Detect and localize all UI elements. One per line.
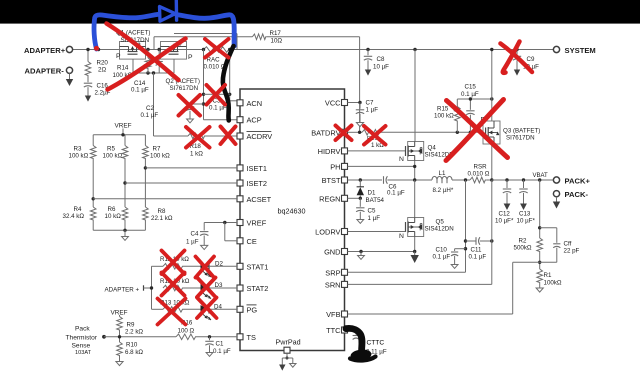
pin TTC xyxy=(342,327,348,333)
wire Q1 Q2 gates xyxy=(132,59,134,73)
svg-text:C12: C12 xyxy=(499,211,511,218)
transistor Q1 (ACFET) xyxy=(120,42,146,60)
resistor R2 xyxy=(537,238,543,253)
svg-text:0.1 µF: 0.1 µF xyxy=(131,87,149,94)
svg-text:R8: R8 xyxy=(158,208,166,215)
svg-text:PACK+: PACK+ xyxy=(565,176,591,185)
svg-text:BAT54: BAT54 xyxy=(366,197,385,204)
svg-text:103AT: 103AT xyxy=(75,350,92,356)
resistor R1 xyxy=(537,269,543,284)
pin GND xyxy=(342,249,348,255)
wire CE xyxy=(224,223,226,241)
capacitor CTTC xyxy=(348,329,357,331)
svg-text:C7: C7 xyxy=(366,100,374,107)
red X over R12 xyxy=(162,273,185,296)
LED D2 xyxy=(184,265,201,267)
red X over R18 xyxy=(186,127,210,148)
pin PG xyxy=(237,306,243,312)
svg-text:R7: R7 xyxy=(153,146,161,153)
pin CE xyxy=(237,238,243,244)
svg-text:PG: PG xyxy=(247,305,258,314)
pin ISET2 xyxy=(237,180,243,186)
capacitor C9 xyxy=(515,48,518,51)
resistor R5 xyxy=(124,135,126,146)
sense resistor RAC xyxy=(204,47,230,53)
svg-text:Q5: Q5 xyxy=(436,218,445,225)
pin HIDRV xyxy=(342,148,348,154)
wire R17 row xyxy=(153,37,155,50)
pin STAT2 xyxy=(237,285,243,291)
svg-text:R10: R10 xyxy=(126,342,138,349)
svg-text:1 µF: 1 µF xyxy=(368,215,381,222)
svg-text:SI7617DN: SI7617DN xyxy=(170,85,199,92)
terminal ADAPTER- xyxy=(66,67,72,73)
svg-text:P: P xyxy=(188,54,193,61)
capacitor Cff xyxy=(540,227,557,229)
wire R17 to BATDRV xyxy=(359,37,361,133)
pin ACN xyxy=(237,100,243,106)
svg-text:Q4: Q4 xyxy=(428,144,437,151)
svg-text:C11: C11 xyxy=(471,246,482,253)
capacitor C4 xyxy=(203,223,205,231)
pin PwrPad xyxy=(284,347,290,353)
red X over D2 xyxy=(196,257,215,278)
svg-text:RSR: RSR xyxy=(474,163,488,170)
black marker TTC annotation xyxy=(346,328,362,349)
svg-text:R14: R14 xyxy=(117,65,129,72)
svg-text:32.4 kΩ: 32.4 kΩ xyxy=(63,213,85,220)
wire ACSET row xyxy=(92,160,94,208)
resistor R11 xyxy=(152,265,164,267)
pin VREF xyxy=(237,220,243,226)
svg-text:CE: CE xyxy=(247,237,257,246)
svg-text:TTC: TTC xyxy=(326,326,341,335)
wire VFB row xyxy=(348,313,513,315)
svg-text:R9: R9 xyxy=(127,322,135,329)
capacitor C7 xyxy=(348,102,361,104)
svg-text:R5: R5 xyxy=(107,146,115,153)
svg-text:N: N xyxy=(399,156,404,163)
svg-text:REGN: REGN xyxy=(319,194,340,203)
pin VFB xyxy=(342,311,348,317)
wire VBAT rail xyxy=(492,179,554,181)
svg-text:D2: D2 xyxy=(215,260,223,267)
resistor R14 xyxy=(147,50,149,59)
red dot at adapter junction xyxy=(94,46,99,51)
svg-text:0.1 µF: 0.1 µF xyxy=(213,348,231,355)
svg-text:C4: C4 xyxy=(191,231,199,238)
svg-text:Pack: Pack xyxy=(75,326,90,333)
svg-text:Q2 (ACFET): Q2 (ACFET) xyxy=(166,78,200,85)
svg-text:BATDRV: BATDRV xyxy=(311,128,340,137)
transistor Q4 xyxy=(413,48,416,51)
resistor R19 xyxy=(362,130,381,136)
pin VCC xyxy=(342,100,348,106)
capacitor C2 xyxy=(190,103,204,105)
resistor R7 xyxy=(144,135,146,146)
node adapter junction xyxy=(97,48,100,51)
pin SRP xyxy=(342,269,348,275)
red X over BATDRV pin xyxy=(336,126,352,141)
svg-text:VBAT: VBAT xyxy=(533,173,549,179)
svg-text:L1: L1 xyxy=(439,170,446,177)
svg-text:100 kΩ: 100 kΩ xyxy=(150,153,170,160)
capacitor C8 xyxy=(366,48,369,51)
red X over R19 xyxy=(364,126,386,145)
svg-text:D1: D1 xyxy=(368,189,376,196)
black marker wire annotation xyxy=(223,46,234,121)
LED D4 xyxy=(184,308,201,310)
wire REGN row xyxy=(348,197,361,199)
pin TS xyxy=(237,334,243,340)
svg-text:VREF: VREF xyxy=(115,123,132,130)
wire gate to ACDRV row xyxy=(154,135,189,137)
wire BTST phase row xyxy=(348,179,383,181)
wire RAC right sense xyxy=(229,50,231,101)
resistor R12 xyxy=(163,285,184,291)
transistor Q5 xyxy=(414,180,416,218)
svg-text:ACP: ACP xyxy=(247,116,262,125)
svg-text:0.1 µF: 0.1 µF xyxy=(461,91,479,98)
svg-text:C1: C1 xyxy=(216,341,224,348)
svg-text:ACSET: ACSET xyxy=(247,195,272,204)
svg-text:P: P xyxy=(116,53,121,60)
svg-text:R6: R6 xyxy=(108,206,116,213)
svg-text:D4: D4 xyxy=(214,303,222,310)
inductor L1 xyxy=(432,176,452,180)
svg-text:R17: R17 xyxy=(270,30,282,37)
red X over ACDRV wire xyxy=(221,127,236,145)
resistor R9 xyxy=(117,317,123,332)
pin ACP xyxy=(237,117,243,123)
capacitor C11 xyxy=(466,240,477,242)
svg-text:1 µF: 1 µF xyxy=(366,107,379,114)
svg-text:HIDRV: HIDRV xyxy=(318,147,341,156)
svg-text:6.8 kΩ: 6.8 kΩ xyxy=(125,349,143,356)
svg-text:R2: R2 xyxy=(519,237,527,244)
resistor R4 xyxy=(90,207,96,221)
diode D1 BAT54 xyxy=(359,178,362,181)
sense resistor RSR xyxy=(470,177,486,183)
svg-text:PwrPad: PwrPad xyxy=(276,338,301,347)
ground PwrPad xyxy=(286,353,288,358)
svg-text:ISET1: ISET1 xyxy=(247,164,268,173)
resistor R16 xyxy=(176,334,197,340)
red X over C3 xyxy=(207,85,226,105)
svg-text:N: N xyxy=(399,233,404,240)
svg-text:Sense: Sense xyxy=(72,342,91,349)
svg-text:10 kΩ: 10 kΩ xyxy=(105,213,122,220)
svg-text:TS: TS xyxy=(247,333,257,342)
pin BATDRV xyxy=(342,129,348,135)
capacitor C16 xyxy=(87,77,89,83)
capacitor C3 xyxy=(204,93,215,95)
svg-text:VREF: VREF xyxy=(247,219,267,228)
svg-text:ISET2: ISET2 xyxy=(247,179,268,188)
svg-text:0.1 µF: 0.1 µF xyxy=(469,253,487,260)
svg-text:1 µF: 1 µF xyxy=(186,239,199,246)
red X over Q3 R15 C15 xyxy=(447,101,508,158)
resistor R18 xyxy=(188,133,206,139)
pin PH xyxy=(342,163,348,169)
pin ACSET xyxy=(237,196,243,202)
resistor R6 xyxy=(122,207,128,221)
capacitor C1 xyxy=(208,335,211,338)
svg-text:R15: R15 xyxy=(437,105,449,112)
wire PH row xyxy=(348,165,415,167)
svg-text:GND: GND xyxy=(324,248,340,257)
black header bar xyxy=(0,0,640,24)
wire adapter+ rail xyxy=(73,49,204,51)
resistor R17 xyxy=(252,34,266,40)
svg-text:0.1 µF: 0.1 µF xyxy=(141,112,159,119)
wire VREF pin row xyxy=(204,222,237,224)
resistor R3 xyxy=(92,135,94,146)
pin REGN xyxy=(342,195,348,201)
resistor R13 xyxy=(152,308,164,310)
resistor R15 xyxy=(456,99,458,107)
svg-text:C9: C9 xyxy=(527,56,535,63)
svg-text:100 Ω: 100 Ω xyxy=(178,327,195,334)
svg-text:CTTC: CTTC xyxy=(367,339,385,346)
svg-text:SI7617DN: SI7617DN xyxy=(506,134,535,141)
svg-text:C10: C10 xyxy=(436,246,448,253)
capacitor C12 xyxy=(505,178,508,181)
svg-text:C15: C15 xyxy=(465,84,477,91)
svg-text:ACDRV: ACDRV xyxy=(247,132,273,141)
wire to ACP xyxy=(204,119,238,121)
pin SRN xyxy=(342,281,348,287)
svg-text:2Ω: 2Ω xyxy=(98,67,106,74)
svg-text:Q3 (BATFET): Q3 (BATFET) xyxy=(503,127,540,134)
capacitor C15 xyxy=(469,99,471,110)
capacitor C13 xyxy=(522,178,525,181)
wire LODRV row xyxy=(348,231,406,233)
wire STAT bracket xyxy=(151,266,153,309)
svg-text:100 kΩ: 100 kΩ xyxy=(103,153,123,160)
red X over Q1 Q2 xyxy=(107,24,179,81)
wire VREF row xyxy=(93,134,145,136)
svg-text:C5: C5 xyxy=(368,207,376,214)
svg-text:100kΩ: 100kΩ xyxy=(544,279,562,286)
svg-text:0.1 µF: 0.1 µF xyxy=(433,253,451,260)
wire ISET1 row xyxy=(144,160,146,208)
pin ISET1 xyxy=(237,165,243,171)
svg-text:ADAPTER-: ADAPTER- xyxy=(25,67,65,76)
svg-text:D3: D3 xyxy=(215,282,223,289)
svg-text:SYSTEM: SYSTEM xyxy=(565,46,596,55)
blue diode annotation xyxy=(160,7,176,22)
red X over R13 xyxy=(158,299,186,325)
svg-text:0.1 µF: 0.1 µF xyxy=(387,189,405,196)
svg-text:8.2 µH*: 8.2 µH* xyxy=(433,187,454,194)
svg-text:R4: R4 xyxy=(74,206,82,213)
svg-text:C8: C8 xyxy=(377,56,385,63)
svg-text:STAT2: STAT2 xyxy=(247,284,269,293)
transistor Q3 (BATFET) xyxy=(491,50,493,122)
svg-text:ADAPTER+: ADAPTER+ xyxy=(24,46,66,55)
wire HIDRV row xyxy=(348,150,406,152)
wire SRN row xyxy=(348,283,492,285)
svg-text:22.1 kΩ: 22.1 kΩ xyxy=(151,215,173,222)
svg-text:R1: R1 xyxy=(544,272,552,279)
svg-text:LODRV: LODRV xyxy=(315,228,340,237)
svg-text:VCC: VCC xyxy=(325,99,341,108)
pin STAT1 xyxy=(237,263,243,269)
svg-text:2.2 kΩ: 2.2 kΩ xyxy=(125,329,143,336)
capacitor C10 xyxy=(455,248,466,250)
svg-text:R20: R20 xyxy=(97,60,109,67)
svg-text:500kΩ: 500kΩ xyxy=(514,245,532,252)
svg-text:10 µF*: 10 µF* xyxy=(495,218,514,225)
svg-text:100 kΩ: 100 kΩ xyxy=(69,153,89,160)
wire BATDRV row xyxy=(348,131,363,133)
wire GND row xyxy=(348,251,415,253)
svg-text:10 µF: 10 µF xyxy=(373,64,389,71)
svg-text:ACN: ACN xyxy=(247,99,263,108)
capacitor C5 xyxy=(359,198,361,207)
svg-text:PACK-: PACK- xyxy=(565,190,589,199)
wire to ACN xyxy=(230,100,237,102)
red X over C2 xyxy=(179,95,201,116)
svg-text:100 kΩ: 100 kΩ xyxy=(434,112,454,119)
svg-text:SIS412DN: SIS412DN xyxy=(425,225,454,232)
wire R15 C15 top xyxy=(457,98,492,100)
svg-text:Cff: Cff xyxy=(564,240,572,247)
svg-text:SRN: SRN xyxy=(325,280,341,289)
pin BTST xyxy=(342,177,348,183)
wire ISET2 row xyxy=(124,160,126,208)
svg-text:1 kΩ: 1 kΩ xyxy=(190,150,203,157)
resistor R8 xyxy=(143,207,149,221)
resistor R20 xyxy=(87,50,89,62)
svg-text:BTST: BTST xyxy=(322,176,341,185)
terminal PACK- xyxy=(553,191,559,197)
capacitor C6 xyxy=(383,176,385,184)
svg-text:STAT1: STAT1 xyxy=(247,262,269,271)
svg-text:PH: PH xyxy=(330,162,340,171)
red X over D3 xyxy=(197,278,216,298)
wire R2 column xyxy=(538,178,541,181)
wire RAC left sense xyxy=(203,50,205,120)
terminal SYSTEM xyxy=(553,46,559,52)
red X over RAC xyxy=(205,39,229,58)
svg-text:10Ω: 10Ω xyxy=(271,38,283,45)
wire gates to R18 xyxy=(153,73,155,136)
resistor R10 xyxy=(117,342,123,357)
red X over C9 xyxy=(501,44,533,73)
svg-text:C2: C2 xyxy=(146,105,154,112)
svg-text:22 pF: 22 pF xyxy=(564,247,580,254)
svg-text:VFB: VFB xyxy=(326,310,340,319)
terminal ADAPTER+ xyxy=(66,46,72,52)
red X over R11 xyxy=(162,251,185,275)
svg-text:0.010 Ω: 0.010 Ω xyxy=(468,171,490,178)
svg-text:ADAPTER +: ADAPTER + xyxy=(105,286,140,293)
svg-text:R3: R3 xyxy=(74,146,82,153)
svg-text:10 µF*: 10 µF* xyxy=(517,218,536,225)
wire TS row xyxy=(102,335,106,339)
pin LODRV xyxy=(342,229,348,235)
svg-text:Thermistor: Thermistor xyxy=(66,335,98,342)
capacitor C14 xyxy=(158,50,160,61)
wire loop upper xyxy=(174,33,237,35)
red X over D4 xyxy=(197,298,217,319)
LED D3 xyxy=(184,287,201,289)
blue bypass wire annotation xyxy=(94,14,158,49)
svg-text:SRP: SRP xyxy=(325,268,340,277)
transistor Q2 (ACFET) xyxy=(161,42,187,60)
ground divider xyxy=(92,221,94,230)
pin ACDRV xyxy=(237,133,243,139)
svg-text:C13: C13 xyxy=(519,211,531,218)
terminal PACK+ xyxy=(553,177,559,183)
svg-text:bq24630: bq24630 xyxy=(278,207,306,216)
IC U1 bq24630 xyxy=(240,89,345,351)
wire SRP row xyxy=(348,271,466,273)
